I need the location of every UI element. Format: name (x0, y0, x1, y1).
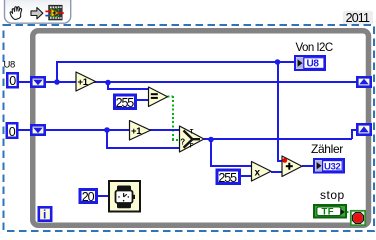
svg-text:U8: U8 (307, 59, 320, 70)
loop iteration terminal i (39, 207, 51, 221)
wire const255a to equal bottom input (137, 99, 150, 101)
svg-text:x: x (255, 167, 261, 178)
left shift register SR1 (31, 77, 44, 86)
wire junction to equal top input (107, 82, 150, 89)
svg-text:U8: U8 (4, 60, 15, 71)
increment node +1 lower (130, 121, 151, 141)
svg-text:F: F (190, 143, 194, 149)
wire add to U32 indicator (302, 165, 314, 167)
svg-text:stop: stop (320, 188, 345, 202)
svg-text:Zähler: Zähler (311, 142, 343, 156)
label Zaehler (311, 142, 343, 156)
constant 0 upper (7, 73, 18, 88)
junction after select (208, 137, 214, 143)
add node (282, 156, 302, 177)
label stop (320, 188, 345, 202)
junction after +1a (105, 80, 111, 86)
increment node +1 upper (76, 72, 96, 91)
wire select output to right SR2 (204, 130, 356, 139)
label U8 (4, 60, 15, 71)
arrow tool icon (31, 8, 43, 19)
indicator Von I2C U8 (295, 56, 325, 70)
junction on top rail (275, 59, 281, 65)
while loop border (33, 31, 369, 226)
indicator Zaehler U32 (314, 159, 344, 173)
svg-text:TF: TF (322, 207, 335, 218)
svg-text:T: T (190, 130, 194, 136)
multiply node (252, 162, 272, 182)
boolean wire stop TF to loop condition (347, 211, 352, 213)
select node (180, 126, 205, 152)
auto tool select VI icon (45, 5, 63, 20)
constant 255 lower (217, 170, 240, 185)
wire const255b to multiply bottom input (241, 175, 252, 177)
svg-text:0: 0 (9, 125, 16, 139)
svg-text:20: 20 (82, 190, 95, 204)
hand tool icon (10, 7, 22, 20)
wire const0b to SR2 to +1b to select t (rail y130) (19, 129, 181, 131)
left shift register SR2 (31, 125, 44, 134)
wire junction down to select f input (106, 130, 180, 148)
svg-text:255: 255 (218, 171, 237, 185)
svg-text:0: 0 (9, 74, 16, 88)
svg-text:i: i (43, 208, 46, 222)
svg-text:Von I2C: Von I2C (296, 42, 333, 54)
wire const0a to SR1 to +1a to right SR1 (rail y82) (19, 81, 356, 83)
svg-text:2011: 2011 (346, 11, 370, 25)
constant 0 lower (7, 123, 18, 139)
constant 20 (80, 190, 97, 204)
svg-text:+1: +1 (131, 126, 142, 137)
svg-text:255: 255 (116, 96, 135, 110)
wire top rail to Von I2C indicator (56, 61, 295, 82)
junction after SR1 (54, 79, 60, 85)
junction after SR2 (104, 127, 110, 133)
equal? node (149, 87, 168, 107)
stop button TF (314, 205, 346, 218)
right shift register SR2 (357, 124, 370, 134)
svg-text:U32: U32 (324, 161, 341, 172)
boolean wire equal to select (168, 96, 181, 140)
svg-text:+1: +1 (78, 77, 89, 88)
right shift register SR1 (357, 77, 370, 86)
wire top rail down to add node input (277, 62, 284, 161)
svg-text:?: ? (180, 138, 185, 147)
tools palette box (5, 0, 71, 23)
loop condition stop terminal (351, 211, 365, 225)
label Von I2C (296, 42, 333, 54)
wire select output down to multiply top input (210, 139, 252, 166)
year label 2011 (343, 11, 373, 25)
wire const20 to wait node (97, 195, 109, 197)
wire multiply to add (271, 171, 282, 173)
coercion dot (282, 158, 287, 163)
constant 255 upper (115, 95, 136, 110)
wait ms node (109, 181, 140, 212)
